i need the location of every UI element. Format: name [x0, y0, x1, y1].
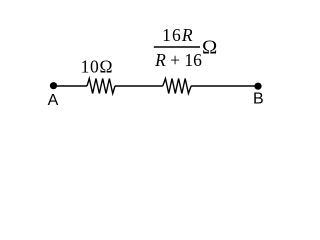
wire — [115, 85, 163, 87]
svg-text:16R: 16R — [162, 25, 194, 45]
node A — [50, 82, 57, 89]
resistor R1 — [87, 79, 115, 94]
wire — [191, 85, 258, 87]
svg-text:Ω: Ω — [202, 37, 217, 59]
svg-text:A: A — [48, 92, 59, 109]
node B — [254, 83, 261, 90]
svg-text:B: B — [253, 91, 264, 108]
resistor R2 — [163, 79, 191, 94]
wire — [54, 85, 88, 87]
fraction bar — [154, 46, 200, 48]
svg-text:10Ω: 10Ω — [81, 57, 113, 77]
svg-text:R + 16: R + 16 — [154, 50, 202, 70]
